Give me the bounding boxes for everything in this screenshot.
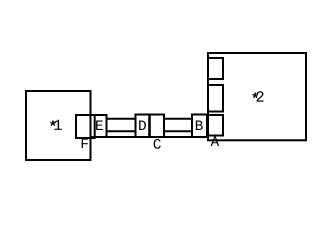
connector cavity 1 on *2 [208, 58, 223, 79]
connector cavity 2 on *2 [208, 85, 223, 112]
wire bottom segment E to D [106, 130, 136, 132]
connector E box [91, 115, 107, 137]
wire top segment E to D [106, 118, 136, 120]
label D [139, 121, 146, 130]
connector D-C housing [136, 115, 165, 138]
harness bottom rail E to B [91, 136, 208, 138]
connector A cavity on *2 [208, 115, 223, 136]
label B [196, 121, 203, 130]
connector B box [192, 115, 207, 138]
wire top segment C to B [164, 118, 193, 120]
component *1 box [26, 91, 91, 160]
label E [96, 121, 103, 130]
divider between D and C [148, 115, 151, 138]
connector F box [76, 115, 95, 138]
label *1 asterisk [50, 120, 56, 126]
wire bottom segment C to B [164, 130, 193, 132]
label *2 digit [256, 91, 263, 101]
component *2 box [208, 53, 306, 140]
label C [154, 139, 161, 149]
label *1 digit [54, 120, 61, 130]
label *2 asterisk [252, 93, 258, 99]
label A [211, 137, 220, 146]
label F [82, 139, 88, 148]
